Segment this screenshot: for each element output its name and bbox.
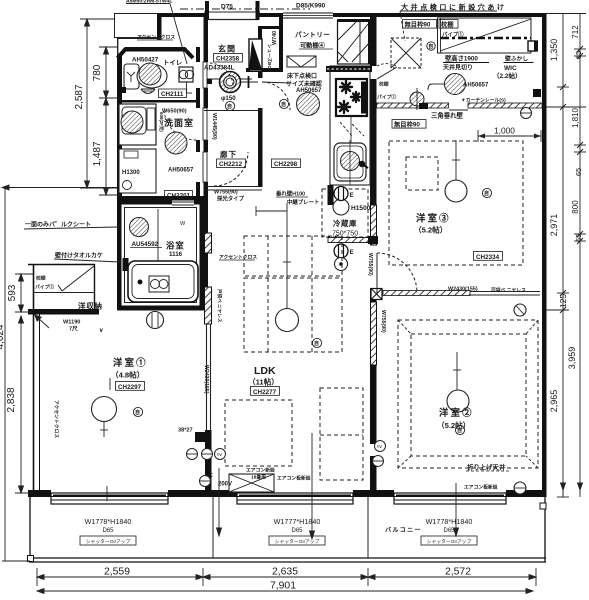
counter dashed diagonals bbox=[340, 122, 352, 136]
curtain rail mark bbox=[449, 109, 468, 111]
washer pan bbox=[119, 149, 156, 193]
towel bar black bbox=[123, 258, 129, 271]
svg-text:2,965: 2,965 bbox=[549, 390, 559, 413]
svg-text:2,971: 2,971 bbox=[549, 214, 559, 237]
ROOM2 ceiling dashed rects bbox=[398, 320, 538, 468]
door gap toilet bbox=[195, 62, 209, 88]
fridge H1500 circle bbox=[333, 199, 349, 215]
bath shower line bbox=[157, 209, 159, 300]
svg-text:CH2358: CH2358 bbox=[216, 56, 240, 63]
svg-text:自: 自 bbox=[484, 190, 489, 197]
svg-text:W1777*H1840: W1777*H1840 bbox=[274, 517, 321, 526]
svg-text:W1445(90): W1445(90) bbox=[211, 113, 217, 140]
jidou circle near pantry bbox=[279, 99, 288, 108]
svg-text:W2430(155): W2430(155) bbox=[203, 365, 209, 394]
entrance void rect top-left bbox=[115, 14, 159, 38]
window pantry top (gap in top wall) bbox=[283, 13, 333, 19]
svg-text:パイプ①: パイプ① bbox=[35, 284, 54, 291]
svg-text:（5.2帖）: （5.2帖） bbox=[414, 225, 447, 235]
small hatched circle near wall bbox=[410, 92, 424, 106]
svg-text:W755(90): W755(90) bbox=[367, 253, 373, 276]
washroom light hatched bbox=[165, 132, 187, 154]
svg-text:洋収納: 洋収納 bbox=[78, 301, 103, 311]
svg-text:戸袋ベ ニヤレス: 戸袋ベ ニヤレス bbox=[216, 289, 223, 323]
LDK ceiling dashed rects bbox=[244, 236, 342, 276]
svg-text:枕棚: 枕棚 bbox=[36, 275, 46, 282]
left leader line washroom note bbox=[2, 187, 117, 189]
svg-text:自: 自 bbox=[457, 427, 462, 434]
bath east wall bbox=[199, 201, 204, 310]
svg-text:自: 自 bbox=[314, 340, 319, 347]
svg-text:枕棚: 枕棚 bbox=[379, 81, 389, 88]
svg-text:無目枠90: 無目枠90 bbox=[405, 20, 431, 29]
svg-text:200V: 200V bbox=[218, 482, 232, 488]
svg-text:CH2334: CH2334 bbox=[476, 254, 500, 261]
tank funnel bbox=[127, 72, 135, 82]
svg-text:W1778*H1840: W1778*H1840 bbox=[85, 517, 132, 526]
svg-text:D85/K990: D85/K990 bbox=[296, 3, 326, 10]
outlets row LDK bottom bbox=[187, 449, 198, 460]
svg-text:サイズ未確認: サイズ未確認 bbox=[286, 80, 322, 88]
1000 dimension room3 bbox=[478, 135, 541, 137]
left dim 593 bbox=[20, 274, 22, 312]
svg-text:593: 593 bbox=[7, 284, 18, 301]
svg-text:無目枠90: 無目枠90 bbox=[394, 120, 420, 129]
svg-text:中継プレート: 中継プレート bbox=[287, 198, 319, 206]
svg-text:4,024: 4,024 bbox=[0, 324, 6, 349]
outlets wall room2 bbox=[375, 441, 386, 452]
sliding door W2430 thin double line bbox=[206, 324, 208, 430]
svg-text:（5.2帖）: （5.2帖） bbox=[437, 420, 470, 430]
shoe area east wall bbox=[258, 26, 262, 71]
svg-text:D75: D75 bbox=[221, 4, 233, 11]
bottom dim row1 bbox=[37, 576, 536, 578]
toilet bowl bbox=[137, 64, 167, 88]
hall door arc lower bbox=[214, 152, 248, 186]
svg-text:エアコン板新設: エアコン板新設 bbox=[464, 484, 498, 491]
svg-text:2,559: 2,559 bbox=[104, 567, 130, 578]
toilet top wall with chamfers bbox=[118, 49, 127, 59]
svg-text:W1190: W1190 bbox=[63, 320, 80, 326]
svg-text:洋室②: 洋室② bbox=[439, 407, 474, 418]
svg-text:シャッターOi!アップ: シャッターOi!アップ bbox=[275, 538, 320, 545]
pantry south wall bbox=[246, 68, 283, 72]
bottom windows bbox=[51, 490, 506, 508]
right chain slash ticks bbox=[560, 46, 583, 313]
svg-text:採光タイプ: 採光タイプ bbox=[217, 195, 245, 203]
svg-text:D65: D65 bbox=[102, 528, 114, 534]
svg-text:（2.2帖）: （2.2帖） bbox=[493, 71, 522, 80]
svg-text:C: C bbox=[209, 473, 213, 479]
hall west wall (east leaf) bbox=[204, 13, 209, 310]
bedroom1 west wall double line bbox=[33, 264, 35, 492]
38*27 black square bbox=[195, 432, 205, 442]
sink circle hatched bbox=[341, 152, 360, 171]
svg-text:D65: D65 bbox=[443, 528, 455, 534]
balcony dividers bbox=[212, 497, 214, 558]
room2 pendant bbox=[447, 390, 469, 412]
svg-text:CH2212: CH2212 bbox=[219, 161, 243, 168]
vent circle room2 divider bbox=[514, 304, 526, 316]
toilet/wash divider bbox=[120, 100, 198, 103]
line above toilet bbox=[117, 38, 161, 40]
svg-text:800: 800 bbox=[571, 200, 580, 214]
pocket-door hatch strip (tobukuro) bbox=[205, 287, 212, 324]
svg-text:750*750: 750*750 bbox=[332, 231, 358, 238]
bathtub bbox=[128, 261, 198, 302]
svg-text:天井見切り: 天井見切り bbox=[443, 64, 473, 72]
hall/kitchen wall bbox=[258, 71, 263, 187]
svg-text:65: 65 bbox=[574, 51, 583, 59]
svg-text:壁付けタオルカケ: 壁付けタオルカケ bbox=[55, 252, 103, 260]
left dim chain B 780/1487 bbox=[105, 47, 107, 195]
window center LDK bbox=[237, 490, 353, 508]
window east bedroom2 bbox=[394, 490, 506, 508]
svg-text:自: 自 bbox=[428, 43, 433, 50]
dim texts bottom bbox=[104, 567, 471, 592]
svg-text:アクセントクロス: アクセントクロス bbox=[137, 34, 175, 41]
room3 ceiling dashed rect bbox=[389, 141, 523, 265]
balcony slab bbox=[29, 557, 546, 559]
vent circle WIC right bbox=[521, 108, 532, 119]
circle with dot bbox=[335, 258, 348, 271]
svg-text:2,635: 2,635 bbox=[272, 567, 298, 578]
center-right wall x370 upper bbox=[370, 13, 377, 66]
svg-text:大井点検口に新設穴あけ: 大井点検口に新設穴あけ bbox=[401, 3, 507, 12]
svg-text:W: W bbox=[180, 221, 186, 227]
svg-text:垂れ壁H100: 垂れ壁H100 bbox=[276, 190, 305, 198]
left dim chain A 2587 bbox=[86, 19, 88, 188]
svg-text:2,572: 2,572 bbox=[445, 567, 471, 578]
top note underline right bbox=[400, 10, 497, 12]
svg-text:洗面室: 洗面室 bbox=[164, 117, 194, 128]
svg-text:冷蔵庫: 冷蔵庫 bbox=[333, 219, 357, 228]
svg-text:W755(90): W755(90) bbox=[214, 190, 238, 196]
bottom dim row2 7901 bbox=[37, 590, 533, 592]
fridge dashed square bbox=[322, 189, 368, 237]
room3 inner dashed square bbox=[406, 157, 438, 190]
left note underline 1 bbox=[24, 227, 117, 229]
dim texts right rotated bbox=[549, 25, 583, 412]
bath walls bbox=[120, 203, 201, 307]
toilet seat front bbox=[141, 89, 155, 94]
entrance door jambs bbox=[205, 1, 209, 20]
bath fan circle bbox=[147, 312, 164, 329]
svg-text:W1778*H1840: W1778*H1840 bbox=[426, 517, 473, 526]
svg-text:TV: TV bbox=[217, 452, 222, 457]
svg-text:壁高さ1900: 壁高さ1900 bbox=[445, 54, 478, 63]
svg-text:（4.8帖）: （4.8帖） bbox=[111, 370, 144, 380]
svg-text:折り上げ天井: 折り上げ天井 bbox=[467, 463, 506, 472]
pocket thin double line room2 bbox=[470, 291, 540, 293]
wall top exterior bbox=[114, 13, 207, 17]
svg-text:壁ふかし: 壁ふかし bbox=[505, 55, 528, 63]
svg-text:7尺: 7尺 bbox=[69, 325, 78, 333]
svg-text:W650(90): W650(90) bbox=[162, 109, 187, 115]
svg-text:1,810: 1,810 bbox=[571, 107, 580, 128]
svg-text:125: 125 bbox=[558, 294, 568, 309]
svg-text:A5M50!2RM-5TW4L: A5M50!2RM-5TW4L bbox=[126, 0, 172, 5]
window center ticks bbox=[106, 486, 108, 501]
svg-text:パイプ①: パイプ① bbox=[442, 31, 464, 39]
svg-text:パントリー: パントリー bbox=[295, 30, 330, 39]
kitchen counter bottom-left wall stub bbox=[328, 185, 334, 205]
door gap washroom bbox=[195, 108, 209, 140]
bath faucet counter bbox=[149, 276, 169, 292]
svg-text:780: 780 bbox=[92, 64, 103, 81]
svg-text:トイレ: トイレ bbox=[163, 59, 182, 67]
pocket-door hatch strip upper (washroom side) bbox=[205, 233, 212, 253]
svg-text:TV: TV bbox=[377, 444, 382, 449]
wall right exterior bbox=[542, 13, 547, 497]
top property dash-dot line bbox=[180, 8, 310, 10]
svg-text:シャッターOi!アップ: シャッターOi!アップ bbox=[427, 538, 472, 545]
wall nub WIC right bbox=[528, 41, 537, 51]
svg-text:E: E bbox=[350, 192, 355, 199]
svg-text:CH2298: CH2298 bbox=[274, 161, 298, 168]
genkan step lines bbox=[207, 78, 252, 80]
pendant feed horizontal bbox=[256, 210, 287, 212]
svg-text:エアコン新設: エアコン新設 bbox=[246, 467, 275, 474]
svg-text:玄関: 玄関 bbox=[218, 44, 236, 54]
toilet tank bbox=[124, 64, 139, 89]
wash/bath divider bbox=[117, 196, 204, 202]
svg-text:W2430(155): W2430(155) bbox=[448, 287, 478, 293]
LDK pendant bbox=[276, 309, 299, 332]
room3 pendant bbox=[445, 180, 467, 202]
kitchen counter outline bbox=[330, 66, 370, 185]
svg-text:AD43384L: AD43384L bbox=[204, 65, 235, 72]
svg-text:65: 65 bbox=[574, 234, 583, 242]
svg-text:600(2F見): 600(2F見) bbox=[158, 112, 165, 132]
vanity counter bbox=[119, 104, 156, 145]
svg-text:∨: ∨ bbox=[99, 328, 103, 334]
svg-text:φ150: φ150 bbox=[221, 95, 236, 102]
svg-text:W740: W740 bbox=[272, 31, 278, 45]
E fan circle lower bbox=[334, 244, 348, 258]
stove bbox=[336, 79, 367, 116]
aircon panel circle room2 bbox=[514, 482, 526, 494]
closet outline bbox=[28, 264, 95, 266]
svg-text:三角垂れ壁: 三角垂れ壁 bbox=[431, 111, 464, 120]
divider wall room3/room2 hatched bbox=[383, 291, 470, 296]
bath light hatched bbox=[130, 218, 149, 237]
svg-text:AU54592: AU54592 bbox=[132, 241, 159, 248]
shoe area top wall bbox=[258, 26, 282, 29]
svg-text:一面のみバ゛ルクシート: 一面のみバ゛ルクシート bbox=[25, 221, 91, 229]
LDK west wall lower segment bbox=[205, 430, 212, 492]
pantry west wall bbox=[279, 17, 283, 71]
svg-text:CH2277: CH2277 bbox=[253, 389, 277, 396]
svg-text:LDK: LDK bbox=[254, 365, 276, 377]
tall cabinet with X bbox=[338, 20, 372, 64]
svg-text:7,901: 7,901 bbox=[270, 581, 296, 592]
left note underline 2 bbox=[54, 259, 120, 262]
svg-text:AH50427: AH50427 bbox=[132, 57, 159, 64]
svg-text:バルコニー: バルコニー bbox=[385, 526, 422, 534]
svg-text:洋室③: 洋室③ bbox=[416, 213, 451, 224]
svg-text:アクセントクロス: アクセントクロス bbox=[219, 254, 257, 261]
bath door gap bbox=[172, 201, 194, 207]
hall south opening bbox=[204, 186, 262, 188]
hinge blob bbox=[121, 87, 126, 93]
svg-text:E: E bbox=[350, 249, 355, 256]
aircon X rect bbox=[229, 474, 274, 492]
makura-dana dash-dot lines bbox=[438, 18, 532, 53]
far-left dim line 4024 bbox=[4, 188, 6, 561]
black bar entrance jamb bbox=[157, 13, 162, 40]
window labels x3 bbox=[80, 517, 477, 545]
svg-text:アクセントクロス: アクセントクロス bbox=[53, 400, 60, 438]
kitchen counter top hatched band bbox=[326, 66, 372, 72]
toilet door swing arc into entrance bbox=[210, 63, 233, 87]
svg-text:自: 自 bbox=[281, 101, 286, 108]
bath south wall bbox=[117, 305, 207, 311]
svg-text:CH2201: CH2201 bbox=[167, 193, 191, 200]
svg-text:浴室: 浴室 bbox=[166, 241, 185, 251]
E fan circle upper bbox=[334, 187, 348, 201]
svg-text:可動棚④: 可動棚④ bbox=[300, 42, 326, 50]
shoe box black triangle bbox=[249, 39, 262, 71]
dim texts left rotated bbox=[0, 64, 103, 412]
svg-text:1,487: 1,487 bbox=[92, 141, 103, 166]
svg-text:D65: D65 bbox=[291, 528, 303, 534]
toilet column east wall (west leaf) bbox=[196, 47, 200, 310]
svg-text:712: 712 bbox=[571, 25, 580, 39]
svg-text:AH50657: AH50657 bbox=[168, 168, 194, 174]
svg-text:AH50657: AH50657 bbox=[296, 88, 322, 94]
svg-text:65: 65 bbox=[574, 168, 583, 176]
room1 pendant bbox=[92, 397, 117, 422]
hall door arc to LDK bbox=[262, 82, 290, 110]
junction X square bbox=[371, 289, 382, 300]
svg-text:▼カーテンレール(S): ▼カーテンレール(S) bbox=[461, 97, 506, 104]
svg-text:CH2297: CH2297 bbox=[118, 384, 142, 391]
svg-text:18畳用: 18畳用 bbox=[251, 474, 266, 481]
leader arrows down through windows bbox=[218, 468, 220, 533]
svg-text:1,000: 1,000 bbox=[494, 126, 515, 136]
bedroom1 north wall bbox=[28, 309, 99, 315]
svg-text:（11帖）: （11帖） bbox=[248, 377, 279, 387]
toilet column west wall bbox=[117, 56, 122, 310]
svg-text:CH2111: CH2111 bbox=[161, 91, 184, 98]
closet door diagonals bbox=[62, 266, 94, 291]
leader arrow W1190 bbox=[36, 316, 49, 328]
left dim 2838 bbox=[20, 316, 22, 493]
WIC labels bbox=[403, 20, 437, 29]
right dim chain inner bbox=[562, 13, 564, 497]
svg-text:洋室①: 洋室① bbox=[113, 357, 148, 368]
svg-text:H1500: H1500 bbox=[351, 205, 371, 212]
svg-text:2,838: 2,838 bbox=[6, 387, 17, 412]
svg-text:パイプ①: パイプ① bbox=[377, 94, 396, 101]
svg-text:エアコン板新設: エアコン板新設 bbox=[277, 475, 311, 482]
svg-text:枕棚: 枕棚 bbox=[441, 20, 454, 29]
wall bottom exterior bbox=[28, 490, 546, 497]
ceiling access X-box bbox=[391, 38, 421, 68]
window west bedroom1 bbox=[51, 490, 168, 508]
LDK top light hatched bbox=[297, 93, 320, 116]
svg-text:38*27: 38*27 bbox=[178, 428, 193, 434]
svg-text:2,587: 2,587 bbox=[74, 84, 85, 109]
svg-text:3,959: 3,959 bbox=[567, 347, 577, 370]
svg-text:W755(90): W755(90) bbox=[380, 310, 386, 333]
right dim chain outer bbox=[579, 13, 581, 497]
svg-text:1,350: 1,350 bbox=[549, 39, 559, 62]
vanity bowl light hatched bbox=[121, 111, 143, 133]
svg-text:シューズBOX: シューズBOX bbox=[266, 44, 273, 73]
top-left note underline + leader bbox=[126, 3, 170, 5]
kitchen sink bbox=[334, 143, 366, 181]
center-right wall lower bbox=[370, 288, 377, 302]
svg-text:自: 自 bbox=[135, 409, 140, 416]
svg-text:廊下: 廊下 bbox=[220, 149, 237, 159]
svg-text:シャッターOi!アップ: シャッターOi!アップ bbox=[86, 538, 131, 545]
svg-text:WIC: WIC bbox=[504, 65, 517, 72]
LDK lower dashed rects bbox=[225, 400, 292, 466]
svg-text:1116: 1116 bbox=[169, 251, 183, 258]
toilet hand basin bbox=[179, 67, 193, 82]
toilet light hatched bbox=[139, 63, 161, 85]
svg-text:自: 自 bbox=[227, 103, 232, 110]
svg-text:戸袋ベ ニヤレス: 戸袋ベ ニヤレス bbox=[491, 287, 526, 294]
hatched dropped-wall band WIC bbox=[377, 103, 449, 108]
WIC light hatched bbox=[445, 74, 466, 95]
room3 door arc bbox=[377, 253, 417, 293]
entrance door opening bbox=[204, 11, 260, 13]
underfloor access dashed box bbox=[287, 56, 316, 67]
svg-text:H1300: H1300 bbox=[122, 170, 140, 176]
counter end hatched band bbox=[328, 238, 370, 243]
svg-text:AH50657: AH50657 bbox=[463, 83, 489, 89]
door gap hall-washroom lower bbox=[195, 152, 209, 182]
svg-text:床下点検口: 床下点検口 bbox=[287, 72, 317, 80]
genkan coil light bbox=[220, 72, 241, 93]
center-right wall middle (hatched part) bbox=[370, 105, 377, 205]
